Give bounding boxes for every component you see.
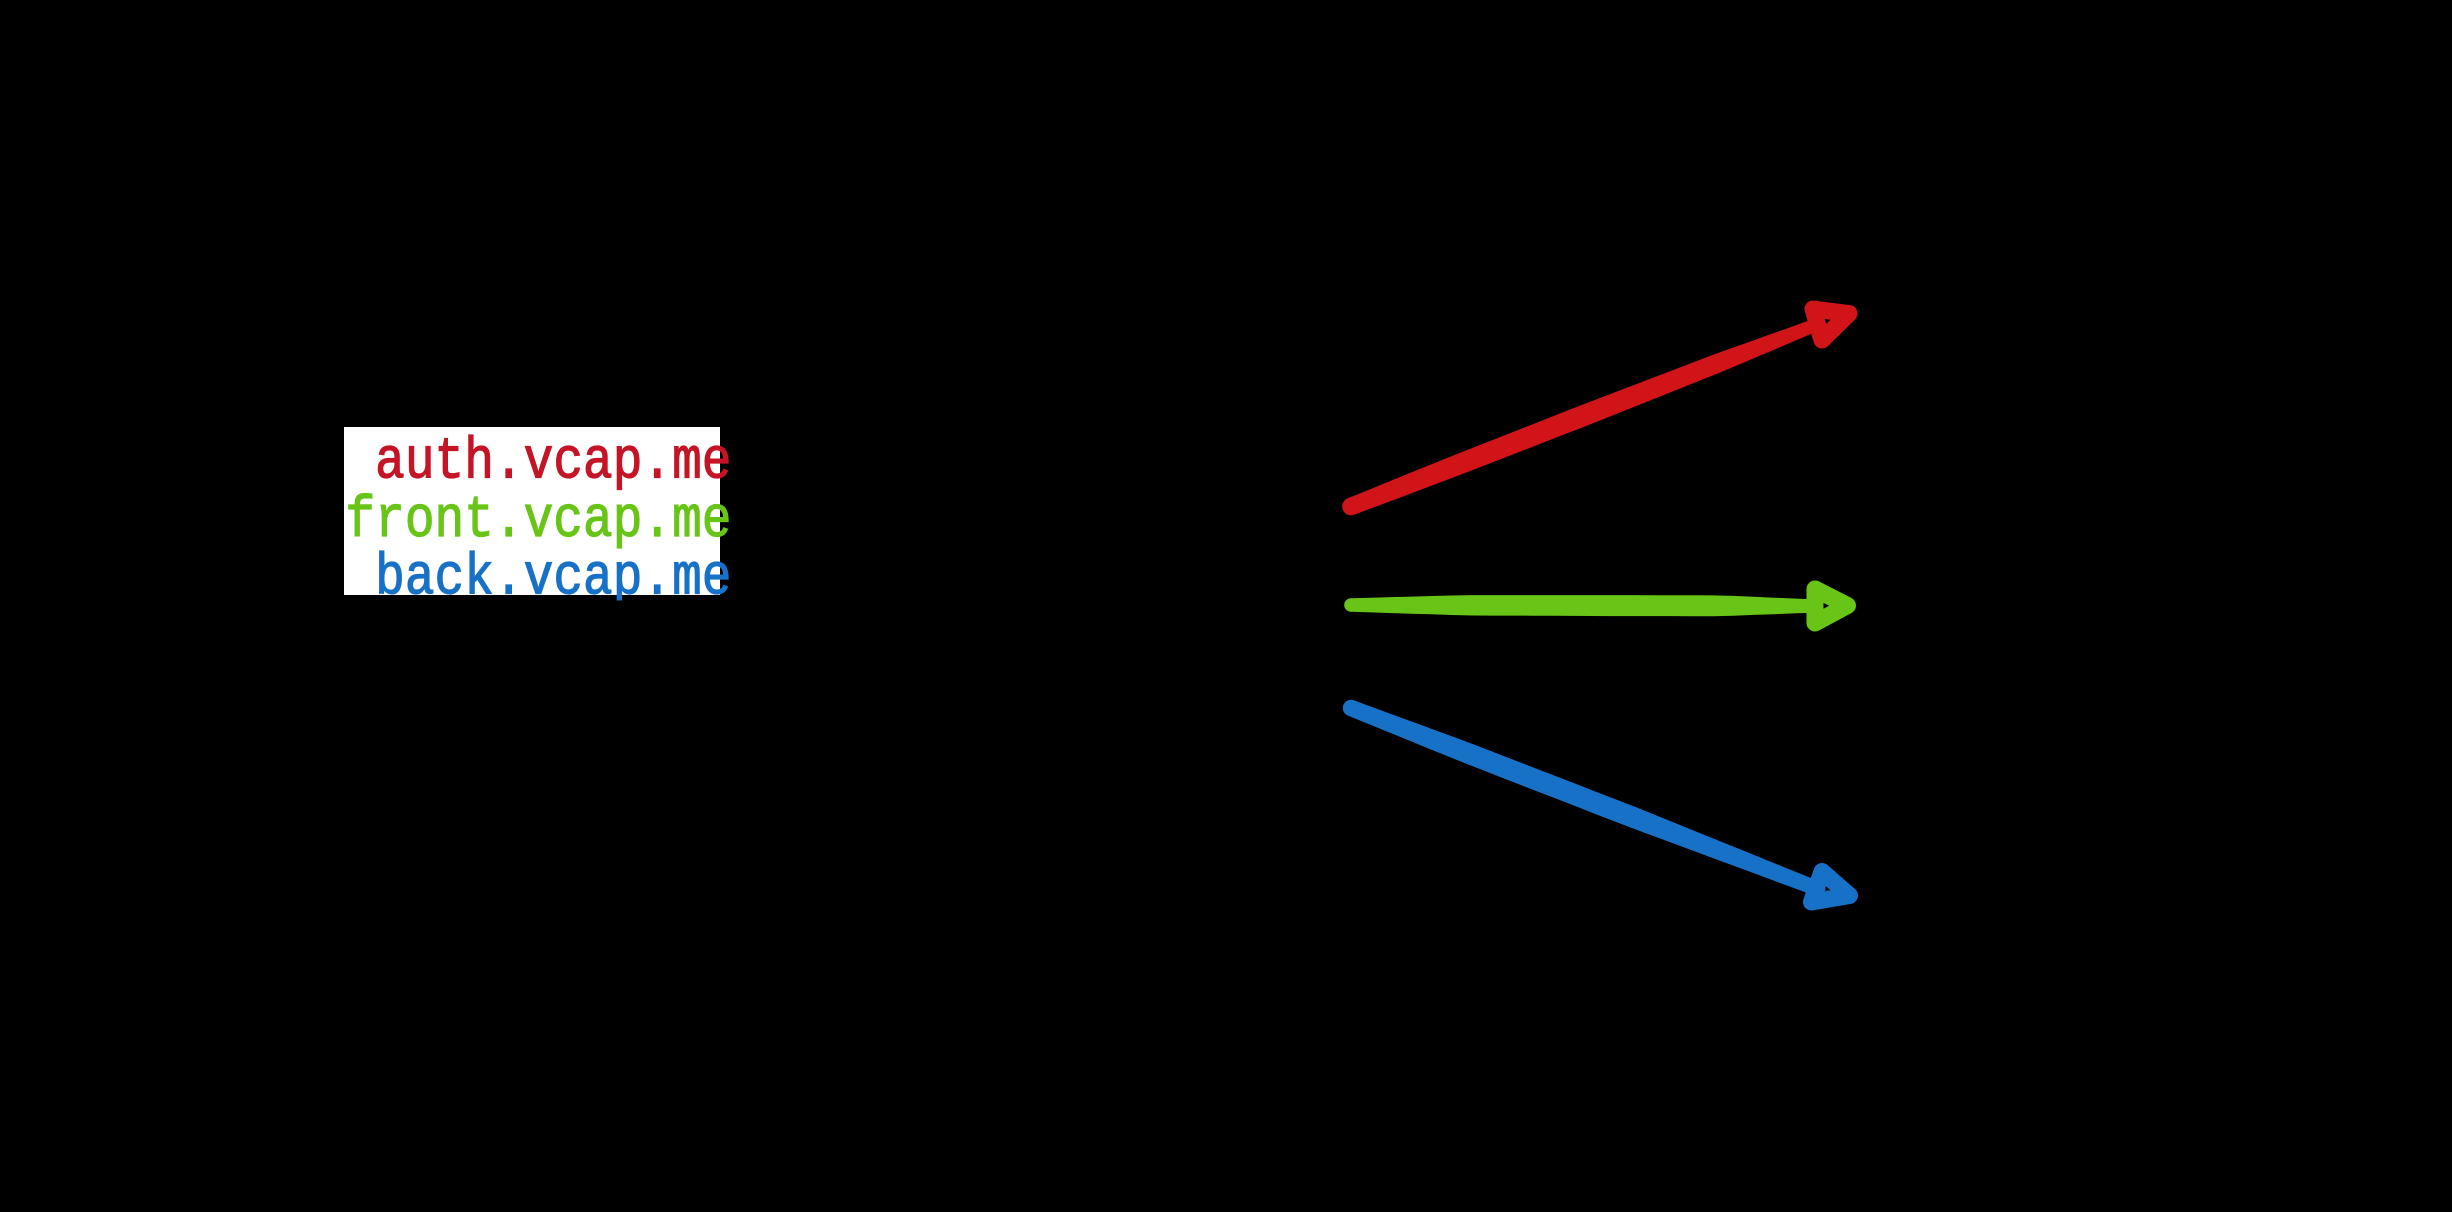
svg-text:back.vcap.me: back.vcap.me <box>375 546 731 612</box>
svg-text:front.vcap.me: front.vcap.me <box>345 489 731 555</box>
svg-text:auth.vcap.me: auth.vcap.me <box>375 430 731 496</box>
